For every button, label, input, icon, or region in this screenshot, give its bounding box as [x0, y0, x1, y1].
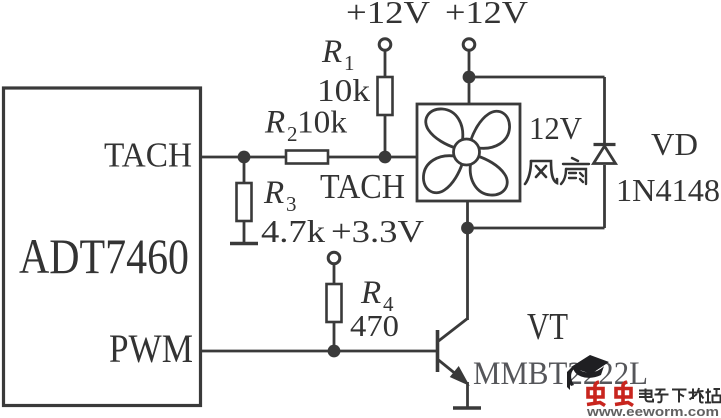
- wire emitter to ground: [466, 382, 469, 407]
- svg-text:TACH: TACH: [320, 167, 405, 206]
- wire right terminal down to fan top: [468, 51, 471, 105]
- svg-text:+3.3V: +3.3V: [331, 213, 424, 249]
- resistor R2 body: [286, 151, 328, 164]
- fan blade NE: [471, 111, 510, 148]
- transistor VT emitter stroke: [439, 360, 466, 382]
- watermark logo graduation cap: [567, 355, 609, 390]
- terminal +12V right circle: [463, 39, 475, 51]
- IC U1 ADT7460 box: [4, 88, 201, 406]
- svg-text:10k: 10k: [297, 104, 347, 140]
- terminal +3.3V circle: [328, 252, 340, 264]
- label fan 扇 (drawn strokes): [561, 158, 589, 184]
- wire R4 bottom to PWM net: [333, 322, 336, 351]
- terminal +12V left circle: [379, 39, 391, 51]
- svg-text:ADT7460: ADT7460: [19, 228, 189, 284]
- svg-text:12V: 12V: [529, 110, 582, 146]
- transistor VT base bar: [436, 330, 440, 372]
- wire diode cathode drop: [603, 77, 606, 143]
- transistor VT emitter arrowhead: [452, 369, 467, 384]
- resistor R1 body: [378, 77, 393, 115]
- wire diode anode drop: [603, 165, 606, 228]
- fan M1 box: [417, 104, 520, 201]
- wire TACH net: IC TACH pin to R2 left: [201, 156, 286, 159]
- ground for VT emitter: [453, 406, 481, 410]
- svg-text:TACH: TACH: [104, 136, 192, 175]
- watermark 虫虫 (drawn strokes, red): [587, 382, 633, 406]
- svg-text:R: R: [264, 105, 285, 141]
- svg-text:VT: VT: [527, 306, 568, 348]
- wire collector vertical: [466, 228, 469, 320]
- wire R3 bottom to ground: [243, 221, 246, 243]
- resistor R3 body: [237, 183, 252, 221]
- svg-text:R: R: [321, 34, 342, 70]
- diode VD cathode bar: [594, 143, 616, 146]
- fan blade SE: [470, 156, 507, 195]
- node junction dot TACH/R1: [379, 151, 392, 164]
- svg-text:R: R: [263, 175, 284, 211]
- wire collector node to diode anode: [468, 227, 605, 230]
- svg-text:2: 2: [287, 122, 298, 146]
- svg-text:PWM: PWM: [109, 326, 193, 371]
- svg-text:+12V: +12V: [445, 0, 528, 30]
- diode VD triangle: [594, 146, 616, 164]
- svg-text:www.eeworm.com: www.eeworm.com: [586, 404, 719, 418]
- node junction dot PWM/R4: [328, 345, 341, 358]
- node junction dot TACH/R3: [238, 151, 251, 164]
- wire terminal to R1 top: [384, 51, 387, 78]
- svg-text:VD: VD: [651, 126, 698, 162]
- wire R1 bottom to TACH net junction: [384, 115, 387, 157]
- node junction dot collector/diode/fan: [461, 222, 474, 235]
- svg-text:470: 470: [350, 308, 399, 343]
- svg-text:4.7k: 4.7k: [261, 213, 325, 249]
- label fan 风 (drawn strokes): [525, 161, 557, 184]
- watermark 电子下载站 (drawn strokes): [639, 388, 721, 403]
- wire fan bottom to collector node: [466, 201, 469, 228]
- fan blade SW: [423, 156, 462, 193]
- fan blade NW: [426, 109, 463, 148]
- wire +3.3V terminal to R4: [333, 264, 336, 284]
- svg-text:R: R: [360, 275, 381, 311]
- node junction dot +12V/diode: [463, 71, 476, 84]
- resistor R4 body: [327, 284, 342, 322]
- ground for R3: [230, 242, 258, 245]
- transistor VT collector stroke: [439, 319, 468, 342]
- wire R3 branch: junction down to R3 top: [243, 157, 246, 183]
- wire +12V node to diode top: [469, 76, 605, 79]
- wire R2 right to fan box left edge: [328, 156, 417, 159]
- svg-text:1N4148: 1N4148: [616, 172, 720, 208]
- svg-text:+12V: +12V: [346, 0, 430, 30]
- fan hub: [454, 139, 480, 165]
- wire PWM net: IC PWM pin to base: [201, 350, 437, 353]
